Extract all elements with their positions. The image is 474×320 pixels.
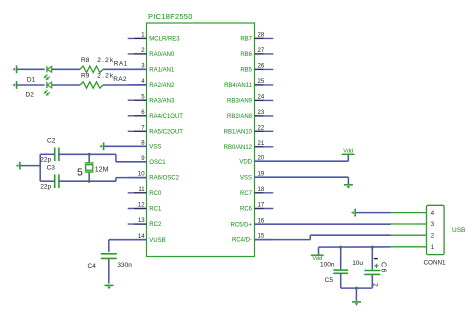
ground G8 (C5 C6) bbox=[352, 302, 361, 306]
svg-text:VDD: VDD bbox=[239, 159, 252, 165]
wire R9 to pin 4, net RA2 bbox=[103, 76, 147, 85]
svg-text:20: 20 bbox=[258, 155, 265, 161]
svg-text:OSC1: OSC1 bbox=[149, 160, 166, 166]
capacitor C4 330n bbox=[88, 254, 133, 270]
svg-text:R9: R9 bbox=[81, 72, 90, 79]
svg-text:18: 18 bbox=[258, 187, 265, 193]
svg-text:5: 5 bbox=[77, 167, 83, 179]
svg-text:23: 23 bbox=[258, 110, 265, 116]
LED D1 bbox=[27, 66, 52, 83]
svg-text:RB7: RB7 bbox=[240, 37, 252, 43]
svg-text:R8: R8 bbox=[81, 57, 90, 64]
svg-text:11: 11 bbox=[138, 187, 145, 193]
svg-text:Vdd: Vdd bbox=[343, 149, 353, 155]
LED D2 bbox=[26, 82, 52, 99]
wire Vdd rail to CONN1 pin 1 bbox=[319, 246, 391, 248]
wire pin 15 RC4/D- to CONN1 pin 2 bbox=[255, 235, 391, 239]
svg-text:MCLR/RE3: MCLR/RE3 bbox=[149, 37, 180, 43]
U1 pin 19 VSS bbox=[240, 171, 273, 181]
svg-text:22p: 22p bbox=[40, 156, 51, 163]
connector CONN1 USB body bbox=[424, 205, 466, 266]
U1 pin 5 RA3/AN3 bbox=[128, 94, 175, 104]
svg-text:D1: D1 bbox=[27, 76, 36, 83]
svg-text:15: 15 bbox=[258, 234, 265, 240]
wire G4 to pin 8 bbox=[104, 145, 146, 147]
svg-text:RB0/AN12: RB0/AN12 bbox=[224, 145, 253, 151]
wire G2 to D2 bbox=[17, 84, 44, 86]
U1 pin 27 RB6 bbox=[240, 48, 273, 58]
U1 pin 14 VUSB bbox=[128, 234, 166, 244]
svg-text:RB2/AN8: RB2/AN8 bbox=[227, 114, 253, 120]
svg-text:22: 22 bbox=[258, 125, 265, 131]
wire C2 to OSC1 node bbox=[59, 153, 116, 155]
svg-text:22p: 22p bbox=[40, 184, 51, 191]
CONN1 pin 1 stub bbox=[390, 245, 435, 251]
wire G7 to CONN1 pin 4 bbox=[356, 212, 391, 214]
U1 pin 24 RB3/AN9 bbox=[227, 95, 273, 105]
svg-text:14: 14 bbox=[138, 234, 145, 240]
svg-text:28: 28 bbox=[258, 33, 265, 39]
U1 pin 26 RB5 bbox=[240, 64, 273, 74]
svg-text:PIC18F2550: PIC18F2550 bbox=[148, 12, 193, 21]
ground G7 (CONN1 pin 4 shield) bbox=[351, 209, 355, 217]
ground G3 (crystal rail) bbox=[16, 162, 20, 170]
power Vdd (pin 20) bbox=[342, 149, 355, 155]
junction C5 top bbox=[339, 246, 342, 249]
svg-text:2.2k: 2.2k bbox=[97, 57, 114, 64]
svg-text:VSS: VSS bbox=[149, 144, 161, 150]
svg-text:C5: C5 bbox=[325, 277, 334, 284]
svg-text:D2: D2 bbox=[26, 92, 35, 99]
ground G4 (pin 8 VSS) bbox=[99, 142, 103, 150]
svg-text:RA4/C1OUT: RA4/C1OUT bbox=[149, 114, 183, 120]
svg-text:100n: 100n bbox=[320, 261, 335, 268]
wire D2 to R9 bbox=[52, 84, 80, 86]
U1 pin 6 RA4/C1OUT bbox=[128, 110, 184, 120]
svg-text:C4: C4 bbox=[88, 263, 97, 270]
svg-text:RA6/OSC2: RA6/OSC2 bbox=[149, 176, 179, 182]
power Vdd (rail) bbox=[311, 247, 324, 262]
svg-text:25: 25 bbox=[258, 79, 265, 85]
svg-text:RC4/D-: RC4/D- bbox=[232, 238, 252, 244]
U1 pin 1 MCLR/RE3 bbox=[128, 33, 181, 43]
wire R8 to pin 3, net RA1 bbox=[103, 61, 147, 70]
wire left rail bbox=[39, 154, 41, 181]
capacitor C3 22p bbox=[40, 165, 59, 191]
capacitor C5 100n bbox=[320, 247, 348, 288]
svg-text:RA0/AN0: RA0/AN0 bbox=[149, 52, 175, 58]
U1 pin 15 RC4/D- bbox=[232, 234, 273, 244]
svg-text:16: 16 bbox=[258, 218, 265, 224]
svg-text:13: 13 bbox=[138, 218, 145, 224]
U1 pin 22 RB1/AN10 bbox=[224, 125, 274, 135]
svg-text:330n: 330n bbox=[117, 262, 132, 269]
svg-text:RA1/AN1: RA1/AN1 bbox=[149, 67, 175, 73]
junction C6 top bbox=[371, 246, 374, 249]
wire step to pin 10 RA6/OSC2 bbox=[116, 178, 147, 182]
wire D1 to R8 bbox=[52, 68, 80, 70]
svg-text:12: 12 bbox=[138, 203, 145, 209]
U1 pin 3 RA1/AN1 bbox=[128, 63, 175, 73]
svg-text:C6: C6 bbox=[380, 262, 387, 274]
wire C4 to ground bbox=[108, 259, 110, 284]
ground G2 (LED D2 cathode) bbox=[12, 81, 16, 89]
wire step to pin 9 OSC1 bbox=[116, 154, 147, 162]
svg-text:RA3/AN3: RA3/AN3 bbox=[149, 98, 175, 104]
CONN1 pin 3 stub bbox=[390, 222, 435, 228]
wire bottom rail to ground bbox=[355, 288, 357, 301]
svg-text:RC1: RC1 bbox=[149, 207, 162, 213]
U1 pin 28 RB7 bbox=[240, 33, 273, 43]
svg-text:RA2/AN2: RA2/AN2 bbox=[149, 83, 175, 89]
svg-text:C2: C2 bbox=[47, 138, 56, 145]
svg-text:26: 26 bbox=[258, 64, 265, 70]
svg-text:RB6: RB6 bbox=[240, 52, 252, 58]
U1 pin 16 RC5/D+ bbox=[230, 218, 273, 228]
svg-text:RB4/AN11: RB4/AN11 bbox=[224, 83, 253, 89]
U1 pin 25 RB4/AN11 bbox=[224, 79, 273, 89]
wire pin 16 RC5/D+ to CONN1 pin 3 bbox=[255, 223, 391, 225]
wire rail to C3 bbox=[40, 180, 55, 182]
U1 pin 2 RA0/AN0 bbox=[128, 48, 175, 58]
svg-text:RA1: RA1 bbox=[114, 61, 128, 68]
svg-text:RA5/C2OUT: RA5/C2OUT bbox=[149, 129, 183, 135]
svg-text:VUSB: VUSB bbox=[149, 238, 165, 244]
svg-text:24: 24 bbox=[258, 95, 265, 101]
svg-text:10u: 10u bbox=[352, 260, 363, 267]
capacitor C2 22p bbox=[40, 138, 59, 164]
svg-text:C3: C3 bbox=[47, 165, 56, 172]
U1 pin 17 RC6 bbox=[240, 203, 273, 213]
svg-text:RC6: RC6 bbox=[240, 207, 253, 213]
svg-text:VSS: VSS bbox=[240, 175, 252, 181]
U1 pin 20 VDD bbox=[239, 155, 273, 165]
wire C3 to OSC2 node bbox=[59, 180, 116, 182]
wire G1 to D1 bbox=[17, 68, 44, 70]
svg-text:12M: 12M bbox=[95, 166, 109, 173]
svg-text:19: 19 bbox=[258, 171, 265, 177]
svg-text:RC5/D+: RC5/D+ bbox=[230, 222, 252, 228]
wire pin 14 VUSB to C4 bbox=[109, 240, 147, 252]
U1 pin 11 RC0 bbox=[128, 187, 162, 197]
svg-text:RC0: RC0 bbox=[149, 191, 162, 197]
svg-text:CONN1: CONN1 bbox=[424, 259, 447, 266]
ground G1 (LED D1 cathode) bbox=[12, 65, 16, 73]
wire bottom rail C5 C6 bbox=[341, 287, 373, 289]
svg-text:RB3/AN9: RB3/AN9 bbox=[227, 99, 253, 105]
wire pin 19 VSS to ground bbox=[255, 177, 349, 184]
svg-text:RC2: RC2 bbox=[149, 222, 162, 228]
capacitor C6 10u (electrolytic) bbox=[352, 247, 386, 288]
CONN1 pin 2 stub bbox=[390, 233, 435, 239]
U1 pin 9 OSC1 bbox=[128, 156, 167, 166]
wire G3 to rail bbox=[21, 165, 41, 167]
junction OSC1 node bbox=[88, 153, 91, 156]
ground G5 (C4) bbox=[105, 285, 114, 289]
svg-text:17: 17 bbox=[258, 203, 265, 209]
svg-text:2.2k: 2.2k bbox=[97, 72, 114, 79]
CONN1 pin 4 stub bbox=[390, 211, 435, 217]
resistor R8 2.2k bbox=[80, 57, 114, 73]
U1 pin 4 RA2/AN2 bbox=[128, 79, 175, 89]
svg-text:27: 27 bbox=[258, 48, 265, 54]
U1 pin 12 RC1 bbox=[128, 203, 162, 213]
ground G6 (pin 19 VSS) bbox=[344, 185, 353, 189]
svg-text:RC7: RC7 bbox=[240, 191, 253, 197]
crystal Q5 12M bbox=[77, 154, 109, 181]
U1 pin 21 RB0/AN12 bbox=[224, 141, 274, 151]
svg-text:21: 21 bbox=[258, 141, 265, 147]
U1 pin 23 RB2/AN8 bbox=[227, 110, 273, 120]
U1 pin 18 RC7 bbox=[240, 187, 273, 197]
svg-text:RA2: RA2 bbox=[113, 76, 127, 83]
U1 pin 7 RA5/C2OUT bbox=[128, 125, 184, 135]
svg-text:RB1/AN10: RB1/AN10 bbox=[224, 129, 253, 135]
IC U1 PIC18F2550 body bbox=[147, 12, 255, 257]
svg-text:USB: USB bbox=[452, 227, 465, 234]
junction bottom rail bbox=[355, 287, 358, 290]
svg-text:RB5: RB5 bbox=[240, 68, 252, 74]
svg-text:10: 10 bbox=[138, 172, 145, 178]
wire pin 20 VDD to Vdd bbox=[255, 154, 349, 161]
U1 pin 13 RC2 bbox=[128, 218, 162, 228]
junction OSC2 node bbox=[88, 180, 91, 183]
U1 pin 10 RA6/OSC2 bbox=[128, 172, 180, 182]
resistor R9 2.2k bbox=[80, 72, 114, 88]
U1 pin 8 VSS bbox=[128, 140, 162, 150]
wire rail to C2 bbox=[40, 153, 55, 155]
